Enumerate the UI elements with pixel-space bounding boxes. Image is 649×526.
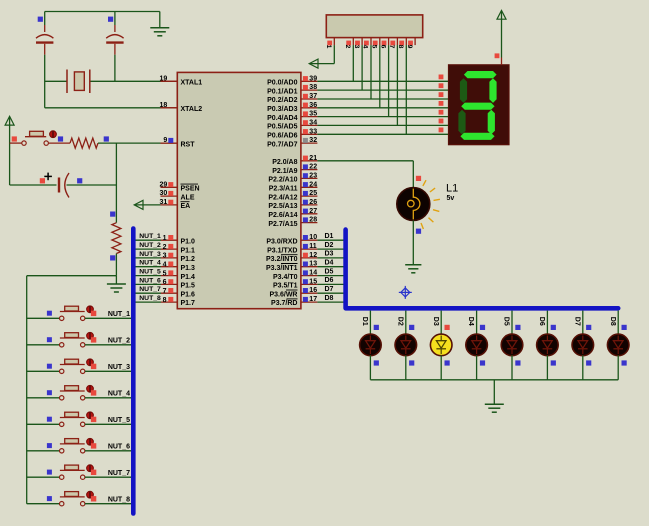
svg-text:P0.1/AD1: P0.1/AD1 [267,88,297,95]
svg-text:37: 37 [309,93,317,100]
svg-text:38: 38 [309,84,317,91]
svg-text:14: 14 [309,270,317,277]
svg-text:D6: D6 [325,277,334,284]
svg-text:8: 8 [163,297,167,304]
svg-text:1: 1 [325,45,332,49]
svg-text:P2.7/A15: P2.7/A15 [268,221,297,228]
svg-text:D4: D4 [467,317,474,326]
svg-text:16: 16 [309,287,317,294]
svg-text:D5: D5 [325,268,334,275]
svg-text:29: 29 [160,181,168,188]
svg-text:31: 31 [160,199,168,206]
svg-text:36: 36 [309,102,317,109]
svg-text:19: 19 [160,75,168,82]
svg-text:D7: D7 [325,286,334,293]
svg-text:9: 9 [163,137,167,144]
svg-text:11: 11 [309,243,317,250]
svg-text:32: 32 [309,137,317,144]
svg-text:D6: D6 [538,317,545,326]
svg-text:NUT_8: NUT_8 [108,497,130,504]
svg-text:P1.7: P1.7 [181,300,196,307]
svg-text:P2.2/A10: P2.2/A10 [268,177,297,184]
svg-text:P0.4/AD4: P0.4/AD4 [267,115,297,122]
svg-text:13: 13 [309,261,317,268]
svg-text:P2.1/A9: P2.1/A9 [272,168,297,175]
svg-text:D1: D1 [361,317,368,326]
svg-text:17: 17 [309,296,317,303]
svg-text:P0.2/AD2: P0.2/AD2 [267,97,297,104]
svg-text:NUT_8: NUT_8 [139,295,161,302]
svg-text:NUT_1: NUT_1 [139,233,161,240]
svg-text:25: 25 [309,190,317,197]
svg-text:D3: D3 [432,317,439,326]
svg-text:NUT_7: NUT_7 [139,286,161,293]
svg-text:P3.3/INT1: P3.3/INT1 [266,265,298,272]
svg-text:2: 2 [344,45,351,49]
svg-text:5v: 5v [447,195,455,202]
svg-text:P2.3/A11: P2.3/A11 [269,186,298,193]
svg-text:NUT_6: NUT_6 [139,277,161,284]
svg-text:NUT_6: NUT_6 [108,444,130,451]
svg-text:P1.4: P1.4 [181,274,196,281]
svg-text:P0.0/AD0: P0.0/AD0 [267,80,297,87]
svg-text:P3.4/T0: P3.4/T0 [273,274,298,281]
svg-text:4: 4 [163,261,167,268]
svg-text:P2.4/A12: P2.4/A12 [268,194,297,201]
svg-text:NUT_4: NUT_4 [108,391,130,398]
svg-text:1: 1 [163,235,167,242]
svg-text:RST: RST [181,141,196,148]
svg-text:P0.5/AD5: P0.5/AD5 [267,124,297,131]
svg-text:P2.0/A8: P2.0/A8 [272,159,297,166]
svg-text:P2.6/A14: P2.6/A14 [268,212,297,219]
svg-text:P2.5/A13: P2.5/A13 [268,203,297,210]
svg-text:39: 39 [309,75,317,82]
svg-text:28: 28 [309,217,317,224]
svg-text:NUT_2: NUT_2 [108,338,130,345]
svg-text:P3.2/INT0: P3.2/INT0 [266,256,298,263]
svg-text:P0.3/AD3: P0.3/AD3 [267,106,297,113]
svg-text:NUT_5: NUT_5 [108,417,130,424]
svg-text:P1.6: P1.6 [181,291,196,298]
svg-text:ALE: ALE [181,194,195,201]
svg-text:NUT_3: NUT_3 [108,364,130,371]
svg-text:L1: L1 [446,183,458,195]
svg-text:10: 10 [309,234,317,241]
svg-text:NUT_5: NUT_5 [139,269,161,276]
svg-text:P3.0/RXD: P3.0/RXD [266,238,297,245]
svg-text:P0.7/AD7: P0.7/AD7 [267,141,297,148]
svg-text:27: 27 [309,208,317,215]
svg-text:30: 30 [160,190,168,197]
svg-text:22: 22 [309,164,317,171]
svg-text:PSEN: PSEN [181,186,200,193]
svg-text:D8: D8 [609,317,616,326]
svg-text:P1.3: P1.3 [181,265,196,272]
svg-text:NUT_4: NUT_4 [139,260,161,267]
svg-text:24: 24 [309,181,317,188]
svg-text:D7: D7 [573,317,580,326]
svg-text:33: 33 [309,128,317,135]
svg-text:NUT_2: NUT_2 [139,242,161,249]
svg-text:P3.7/RD: P3.7/RD [271,300,297,307]
svg-text:D1: D1 [325,233,334,240]
svg-text:21: 21 [309,155,317,162]
svg-text:5: 5 [163,270,167,277]
svg-text:NUT_7: NUT_7 [108,470,130,477]
svg-text:P3.6/WR: P3.6/WR [269,291,297,298]
svg-text:12: 12 [309,252,317,259]
svg-text:P0.6/AD6: P0.6/AD6 [267,133,297,140]
svg-text:34: 34 [309,119,317,126]
svg-text:26: 26 [309,199,317,206]
svg-text:P1.1: P1.1 [181,247,196,254]
svg-text:P1.0: P1.0 [181,238,196,245]
svg-text:XTAL1: XTAL1 [181,80,203,87]
svg-text:EA: EA [181,203,191,210]
svg-text:2: 2 [163,244,167,251]
svg-text:NUT_1: NUT_1 [108,311,130,318]
svg-text:P3.1/TXD: P3.1/TXD [267,247,297,254]
svg-text:D5: D5 [503,317,510,326]
svg-text:6: 6 [163,279,167,286]
svg-text:35: 35 [309,111,317,118]
svg-text:15: 15 [309,278,317,285]
svg-text:7: 7 [163,288,167,295]
svg-text:NUT_3: NUT_3 [139,251,161,258]
svg-text:XTAL2: XTAL2 [181,106,203,113]
svg-text:D8: D8 [325,295,334,302]
svg-text:P1.2: P1.2 [181,256,196,263]
svg-text:D4: D4 [325,259,334,266]
svg-text:18: 18 [160,102,168,109]
svg-text:D2: D2 [325,242,334,249]
svg-text:P1.5: P1.5 [181,283,196,290]
svg-text:23: 23 [309,172,317,179]
svg-text:D2: D2 [396,317,403,326]
svg-text:D3: D3 [325,251,334,258]
svg-text:P3.5/T1: P3.5/T1 [273,283,298,290]
svg-text:3: 3 [163,253,167,260]
